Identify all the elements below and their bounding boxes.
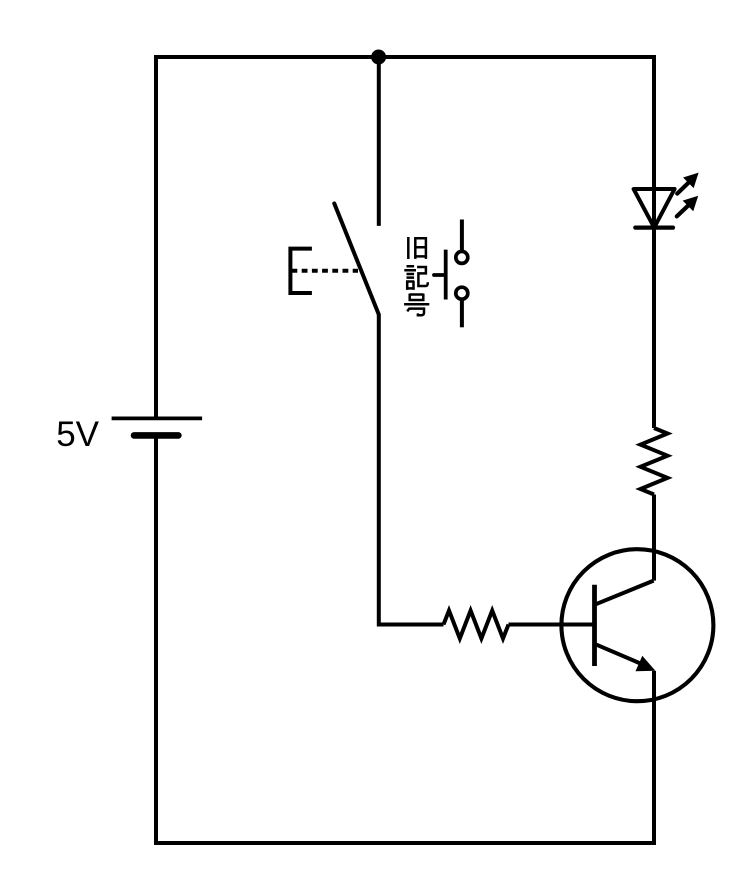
push switch S1 actuator dashed link	[292, 269, 359, 273]
push switch S1 old symbol: top contact circle	[456, 251, 468, 263]
push switch S1 old symbol: top lead	[460, 220, 464, 251]
wire LED to resistor R1	[652, 228, 656, 428]
wire left rail lower (battery - to bottom)	[154, 435, 158, 845]
label 旧記号 (old symbol) drawn as strokes	[404, 237, 429, 315]
号	[410, 294, 424, 302]
wire left rail upper (battery + to top)	[154, 55, 158, 418]
push switch S1 actuator bracket	[290, 249, 312, 293]
transistor Q1 circle	[561, 549, 713, 701]
旧	[407, 237, 410, 259]
push switch S1 old symbol: plunger bar	[444, 250, 448, 300]
transistor Q1 collector arm	[596, 581, 654, 605]
push switch S1 old symbol: bottom contact circle	[456, 287, 468, 299]
node junction at top	[371, 50, 386, 65]
wire junction down to switch	[377, 57, 381, 226]
battery BT1 value label 5V	[56, 415, 99, 454]
push switch S1 old symbol: bottom lead	[460, 300, 464, 327]
LED D1 light arrow 2	[677, 196, 698, 217]
transistor Q1 emitter arm with arrow	[596, 644, 656, 671]
LED D1 cathode bar	[635, 226, 673, 230]
wire switch to base resistor	[379, 314, 444, 624]
wire right rail upper (top to LED)	[652, 55, 656, 228]
resistor R1 (collector) zigzag	[641, 428, 668, 495]
battery BT1 long plate (+)	[112, 417, 203, 421]
LED D1 triangle	[634, 189, 675, 228]
battery BT1 short plate (-)	[134, 432, 178, 439]
wire resistor R1 to collector	[652, 495, 656, 581]
wire top rail	[154, 55, 656, 59]
push switch S1 (new symbol): blade	[334, 204, 378, 315]
transistor Q1 base bar	[592, 585, 597, 666]
wire resistor R2 to transistor base	[509, 623, 595, 627]
push switch S1 old symbol: plunger tick	[434, 273, 446, 277]
記	[404, 266, 416, 277]
wire right rail lower (emitter to bottom)	[652, 671, 656, 845]
wire bottom rail	[154, 841, 656, 845]
resistor R2 (base) zigzag	[444, 611, 509, 639]
LED D1 light arrow 1	[677, 173, 698, 194]
svg-text:5V: 5V	[56, 415, 99, 454]
